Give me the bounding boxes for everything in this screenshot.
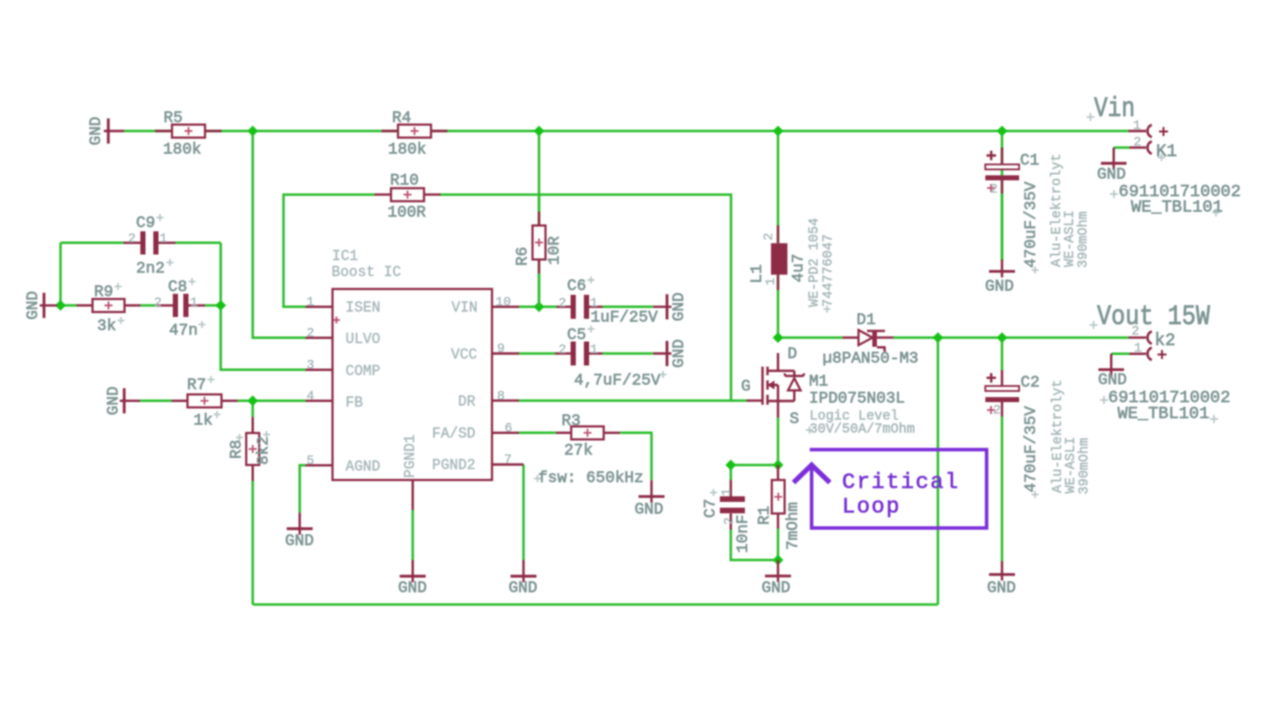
junction FB node <box>247 395 258 406</box>
connector K2 pin 1 <box>1130 348 1152 360</box>
svg-text:1: 1 <box>719 488 734 496</box>
junction source/C7 <box>725 460 736 471</box>
wire D1 cathode to Vout and K2 <box>894 336 1129 339</box>
svg-text:R10: R10 <box>390 172 419 190</box>
svg-text:GND: GND <box>1098 371 1127 389</box>
plus mark K1 pin1 <box>1159 127 1168 136</box>
svg-text:ULVO: ULVO <box>346 332 381 348</box>
svg-text:27k: 27k <box>564 442 593 460</box>
svg-text:WE-PD2 1054: WE-PD2 1054 <box>808 218 823 307</box>
connector K1 pin 1 <box>1129 125 1152 137</box>
svg-text:3k: 3k <box>97 317 116 335</box>
wire C9 right to riser <box>176 242 221 245</box>
svg-text:C7: C7 <box>702 499 720 518</box>
ground C2 <box>989 561 1015 581</box>
junction R6/VIN pin <box>534 301 545 312</box>
svg-text:2: 2 <box>1134 135 1142 150</box>
svg-text:Boost IC: Boost IC <box>332 265 402 281</box>
svg-text:Vout 15W: Vout 15W <box>1097 302 1210 333</box>
svg-text:100R: 100R <box>388 204 427 222</box>
svg-text:C2: C2 <box>1021 374 1040 392</box>
svg-text:10R: 10R <box>546 236 564 265</box>
annotation critical loop box <box>795 450 986 528</box>
svg-text:GND: GND <box>670 339 688 368</box>
wire FA/SD row through R3 to GND <box>519 432 556 435</box>
svg-text:R7: R7 <box>187 376 206 394</box>
svg-text:C5: C5 <box>567 326 586 344</box>
svg-text:8: 8 <box>497 388 505 403</box>
ground R9 left (rotated plate) <box>40 293 57 318</box>
svg-text:GND: GND <box>670 292 688 321</box>
wire C1 branch from Vin rail down to GND <box>1001 131 1004 260</box>
ground Vin input (rotated plate) <box>104 118 124 143</box>
junction drain node <box>773 332 784 343</box>
wire feedback riser to Vout node <box>937 338 940 605</box>
svg-text:2: 2 <box>128 231 136 246</box>
svg-text:2: 2 <box>154 295 162 310</box>
ground PGND2 <box>492 465 537 583</box>
svg-text:S: S <box>790 410 800 428</box>
svg-text:C1: C1 <box>1020 152 1039 170</box>
svg-text:R1: R1 <box>756 506 774 525</box>
wire PGND2 drop <box>522 465 525 561</box>
junction C7/R1 bottom GND node <box>773 555 784 566</box>
svg-text:744776047: 744776047 <box>822 234 837 307</box>
svg-text:4: 4 <box>307 389 315 404</box>
svg-text:K1: K1 <box>1156 142 1177 162</box>
svg-text:µ8PAN50-M3: µ8PAN50-M3 <box>823 350 919 368</box>
ground K2 pin1 <box>1098 354 1124 376</box>
ground C6 right (rotated plate) <box>653 294 671 319</box>
ground R1/C7 <box>765 560 791 582</box>
capacitor C7 horizontal plates <box>720 480 745 530</box>
ground K1 pin2 <box>1101 148 1127 170</box>
wire C7 branch <box>730 465 733 480</box>
svg-text:R3: R3 <box>562 412 581 430</box>
svg-text:R6: R6 <box>514 247 532 266</box>
wire FB row <box>140 400 172 403</box>
svg-text:1k: 1k <box>194 412 213 430</box>
resistor R10 <box>375 188 441 201</box>
svg-text:1: 1 <box>307 295 315 310</box>
wire D1 row anode side <box>778 336 843 339</box>
ground C1 <box>989 260 1015 278</box>
svg-text:COMP: COMP <box>346 364 381 380</box>
svg-text:C6: C6 <box>567 277 586 295</box>
svg-text:C9: C9 <box>136 214 155 232</box>
svg-text:D: D <box>788 345 798 363</box>
wire K1 pin2 stub <box>1114 146 1130 149</box>
svg-text:390mOhm: 390mOhm <box>1078 438 1093 495</box>
ground R3 <box>639 480 665 502</box>
svg-text:C8: C8 <box>168 278 187 296</box>
capacitor C2 electrolytic <box>985 370 1019 417</box>
wire L1 branch vertical from Vin rail to D1 node <box>777 131 780 338</box>
svg-text:fsw: 650kHz: fsw: 650kHz <box>538 469 644 487</box>
svg-text:R8: R8 <box>228 440 246 459</box>
wire AGND drop <box>300 465 306 512</box>
svg-text:ISEN: ISEN <box>346 301 381 317</box>
inductor L1 (filled block) <box>771 225 787 290</box>
ground AGND <box>287 513 313 535</box>
svg-text:GND: GND <box>635 501 664 519</box>
svg-text:GND: GND <box>87 117 105 146</box>
ground R7 left (rotated plate) <box>120 388 140 413</box>
svg-text:9: 9 <box>497 341 505 356</box>
resistor R1 shunt vertical <box>772 465 785 529</box>
capacitor C9 <box>124 231 176 254</box>
resistor R4 <box>382 125 448 138</box>
svg-text:D1: D1 <box>857 311 876 329</box>
svg-text:GND: GND <box>1097 166 1126 184</box>
svg-text:GND: GND <box>985 278 1014 296</box>
capacitor C1 electrolytic <box>985 148 1019 194</box>
svg-text:30V/50A/7mOhm: 30V/50A/7mOhm <box>810 423 915 438</box>
svg-text:5: 5 <box>307 453 315 468</box>
svg-text:G: G <box>741 378 751 396</box>
resistor R8 vertical <box>246 417 259 481</box>
svg-text:1: 1 <box>1133 118 1141 133</box>
ground C5 right (rotated plate) <box>653 341 671 366</box>
svg-text:2n2: 2n2 <box>136 260 165 278</box>
svg-text:IPD075N03L: IPD075N03L <box>809 390 905 408</box>
svg-text:M1: M1 <box>809 373 828 391</box>
svg-text:Loop: Loop <box>842 495 901 520</box>
svg-text:PGND2: PGND2 <box>432 458 476 474</box>
wire sense node row C7-R1 top <box>731 464 778 467</box>
junction Vin/R6 <box>534 126 545 137</box>
svg-text:1uF/25V: 1uF/25V <box>591 309 659 327</box>
resistor R6 vertical <box>533 195 546 307</box>
wire R9 row segments <box>57 304 77 307</box>
junction Vout/C2 <box>997 332 1008 343</box>
junction C9/R9 left <box>55 300 66 311</box>
svg-text:47n: 47n <box>169 322 198 340</box>
svg-text:WE_TBL101: WE_TBL101 <box>1131 199 1223 218</box>
svg-text:GND: GND <box>24 291 42 320</box>
wire Vin rail y=131 <box>124 130 1129 133</box>
transistor M1 IPD075N03L (N-MOSFET) <box>747 353 804 418</box>
svg-text:2: 2 <box>559 342 567 357</box>
svg-text:390mOhm: 390mOhm <box>1077 211 1092 268</box>
svg-text:470uF/35V: 470uF/35V <box>1022 406 1040 493</box>
resistor R3 <box>556 426 620 439</box>
svg-text:6: 6 <box>505 421 513 436</box>
wire R1 branch bottom <box>777 529 780 561</box>
svg-text:7mOhm: 7mOhm <box>784 502 802 550</box>
wire MOSFET source down to sense node <box>777 418 780 466</box>
connector K1 pin 2 <box>1130 141 1152 153</box>
wire ISEN to R10 to gate node <box>284 195 375 307</box>
wire COMP net riser <box>221 243 306 370</box>
svg-text:AGND: AGND <box>346 460 381 476</box>
svg-text:GND: GND <box>509 579 538 597</box>
svg-text:2: 2 <box>722 517 737 525</box>
svg-text:R4: R4 <box>392 109 411 127</box>
wire left leg C9 to R9 row <box>59 243 62 306</box>
svg-text:IC1: IC1 <box>332 249 358 265</box>
capacitor C5 <box>555 342 603 366</box>
wire R10 right to gate column <box>440 195 731 401</box>
svg-text:8k2: 8k2 <box>255 436 273 465</box>
svg-text:Critical: Critical <box>842 470 960 495</box>
ground PGND1 <box>400 480 426 582</box>
wire C9 top row <box>61 242 124 245</box>
svg-text:180k: 180k <box>388 141 426 159</box>
svg-text:2: 2 <box>990 182 998 197</box>
junction Vin/L1 <box>773 126 784 137</box>
svg-text:k2: k2 <box>1155 331 1176 351</box>
junction Vin/C1 <box>997 126 1008 137</box>
junction C8/COMP riser <box>215 300 226 311</box>
capacitor C8 <box>157 294 206 317</box>
svg-text:4u7: 4u7 <box>790 254 808 283</box>
svg-text:GND: GND <box>987 579 1016 597</box>
svg-text:7: 7 <box>504 452 512 467</box>
wire DR pin to MOSFET gate <box>519 399 747 402</box>
svg-text:10nF: 10nF <box>734 515 752 553</box>
plus mark K2 pin1 <box>1158 350 1167 359</box>
wire PGND1 drop <box>411 510 414 560</box>
wire ULVO net vertical from Vin rail junction to pin 2 <box>253 131 306 338</box>
svg-text:180k: 180k <box>163 141 201 159</box>
svg-text:1: 1 <box>1134 341 1142 356</box>
wire R6 branch vertical from Vin rail to VIN pin row <box>538 131 541 307</box>
svg-text:Vin: Vin <box>1094 94 1135 125</box>
svg-text:2: 2 <box>559 296 567 311</box>
svg-text:470uF/35V: 470uF/35V <box>1022 181 1040 268</box>
junction Vout/feedback riser <box>933 332 944 343</box>
svg-text:1: 1 <box>190 295 198 310</box>
wire bottom feedback rail <box>253 603 938 606</box>
svg-text:1: 1 <box>590 342 598 357</box>
svg-text:R5: R5 <box>164 109 183 127</box>
svg-text:GND: GND <box>105 386 123 415</box>
wire C1 lower segment <box>1001 194 1004 261</box>
wire FB junction down through R8 to bottom rail <box>251 401 254 417</box>
connector K2 pin 2 <box>1129 331 1152 343</box>
svg-text:2: 2 <box>307 326 315 341</box>
resistor R7 <box>172 394 238 407</box>
svg-text:GND: GND <box>398 579 427 597</box>
svg-text:R9: R9 <box>94 283 113 301</box>
svg-text:GND: GND <box>285 532 314 550</box>
svg-text:2: 2 <box>1132 324 1140 339</box>
junction Vin/ULVO divider <box>247 126 258 137</box>
svg-text:FA/SD: FA/SD <box>432 426 476 442</box>
svg-text:1: 1 <box>160 231 168 246</box>
svg-text:FB: FB <box>346 396 364 412</box>
capacitor C6 <box>557 295 603 319</box>
resistor R9 <box>77 299 141 312</box>
svg-text:3: 3 <box>307 358 315 373</box>
svg-text:GND: GND <box>762 579 791 597</box>
svg-text:VIN: VIN <box>452 301 478 317</box>
op-amp IC1 boost controller box <box>306 289 520 480</box>
svg-text:PGND1: PGND1 <box>403 434 419 478</box>
junction source/R1 <box>773 460 784 471</box>
wire VIN pin row to C6 <box>519 306 557 309</box>
wire C2 branch <box>1001 338 1004 370</box>
svg-text:1: 1 <box>763 278 778 286</box>
wire VCC pin row to C5 <box>519 352 555 355</box>
svg-text:4,7uF/25V: 4,7uF/25V <box>574 372 661 390</box>
diode D1 schottky <box>843 330 894 352</box>
svg-text:VCC: VCC <box>451 348 477 364</box>
wire K2 pin1 stub <box>1111 353 1129 356</box>
svg-text:10: 10 <box>496 295 512 310</box>
svg-text:DR: DR <box>458 395 476 411</box>
svg-text:2: 2 <box>993 403 1001 418</box>
resistor R5 <box>155 125 222 138</box>
svg-text:2: 2 <box>761 233 776 241</box>
svg-text:WE_TBL101: WE_TBL101 <box>1118 405 1210 424</box>
